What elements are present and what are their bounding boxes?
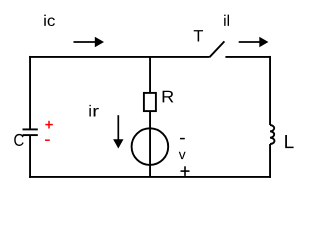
label ir: [89, 105, 90, 117]
wire middle branch upper: [149, 57, 151, 93]
capacitor C top plate: [23, 128, 38, 130]
source circle: [132, 128, 169, 165]
arrow ir (down): [113, 115, 123, 148]
label v: [179, 152, 186, 159]
label il: [224, 15, 229, 26]
label R: [163, 91, 174, 103]
voltage minus sign: [180, 138, 185, 140]
switch T blade (open): [210, 41, 225, 57]
inductor L coil: [270, 125, 274, 144]
wire left upper: [29, 56, 31, 129]
voltage plus sign: [181, 166, 190, 176]
wire middle branch lower (through source): [149, 111, 151, 177]
capacitor polarity minus (red): [45, 139, 50, 141]
wire top-left segment: [29, 56, 209, 58]
wire top-right segment: [225, 56, 271, 58]
capacitor polarity plus (red): [45, 121, 53, 129]
wire right upper: [269, 56, 271, 125]
wire right lower: [269, 144, 271, 178]
label L: [285, 135, 293, 148]
wire bottom: [29, 176, 271, 178]
arrow il (inductor current): [239, 37, 269, 48]
capacitor C bottom plate: [23, 134, 38, 136]
resistor R body: [144, 93, 156, 111]
arrow ic (current into node): [74, 37, 105, 48]
label ic: [44, 15, 55, 26]
label T: [194, 30, 203, 41]
label C: [14, 134, 23, 146]
wire left lower: [29, 135, 31, 178]
